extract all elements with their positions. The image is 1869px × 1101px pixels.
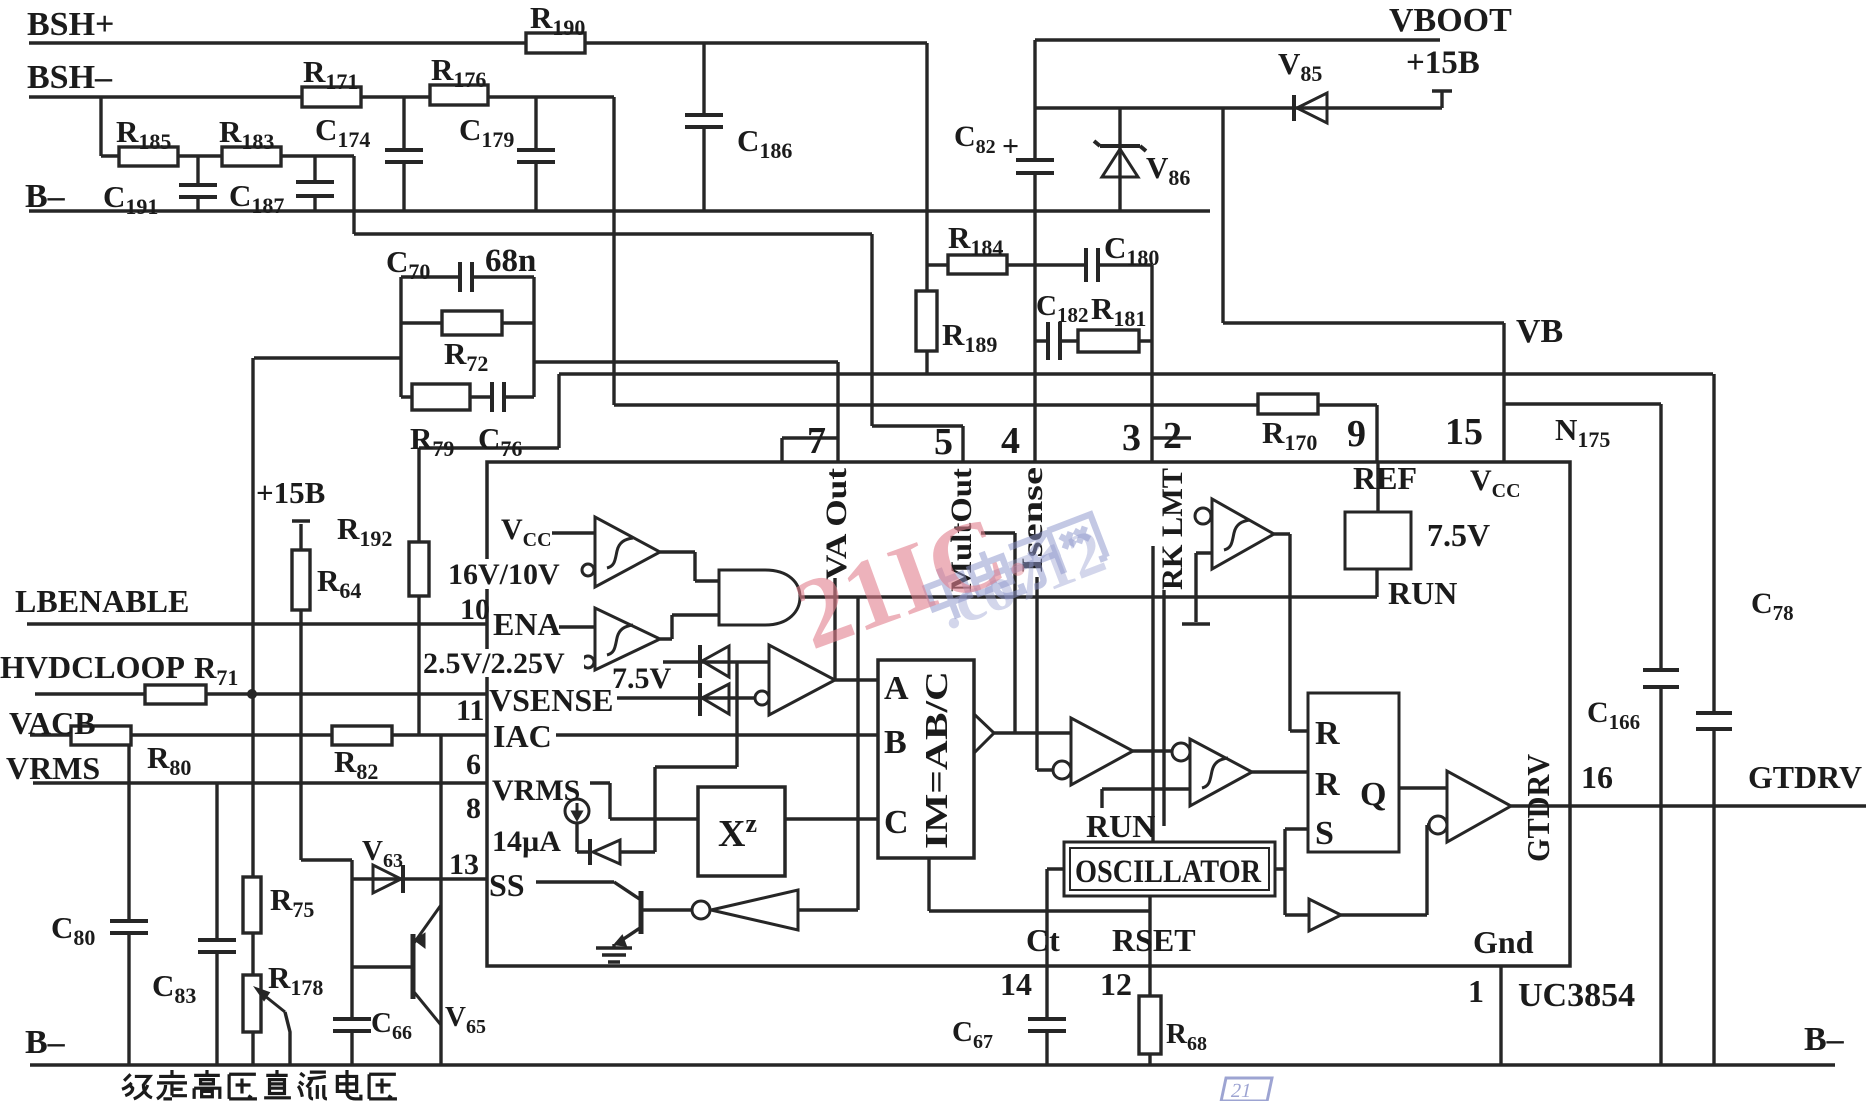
svg-text:R: R (1315, 766, 1340, 803)
svg-text:RUN: RUN (1086, 808, 1155, 844)
svg-text:VSENSE: VSENSE (489, 682, 614, 718)
svg-text:S: S (1315, 815, 1334, 852)
svg-text:16V/10V: 16V/10V (448, 558, 560, 591)
svg-text:1: 1 (1468, 973, 1484, 1009)
svg-text:VRMS: VRMS (492, 774, 580, 807)
svg-text:B–: B– (25, 178, 66, 215)
svg-text:7.5V: 7.5V (612, 662, 672, 695)
svg-text:7.5V: 7.5V (1427, 517, 1490, 553)
svg-text:5: 5 (934, 421, 953, 463)
svg-text:10: 10 (460, 593, 490, 626)
svg-text:+15B: +15B (256, 475, 325, 510)
svg-text:16: 16 (1581, 759, 1613, 795)
svg-text:9: 9 (1347, 413, 1366, 455)
svg-text:LBENABLE: LBENABLE (15, 583, 189, 619)
svg-text:B: B (884, 724, 907, 761)
svg-text:BSH–: BSH– (27, 59, 113, 96)
svg-text:B–: B– (25, 1024, 66, 1061)
svg-text:VB: VB (1516, 313, 1563, 350)
svg-text:VACB: VACB (9, 705, 96, 741)
svg-text:8: 8 (466, 792, 481, 825)
svg-text:11: 11 (456, 694, 484, 727)
svg-text:+15B: +15B (1406, 45, 1480, 81)
svg-text:6: 6 (466, 748, 481, 781)
svg-text:GTDRV: GTDRV (1748, 759, 1862, 795)
svg-text:RSET: RSET (1112, 922, 1196, 958)
svg-text:+: + (1002, 130, 1019, 163)
svg-text:2: 2 (1163, 415, 1182, 457)
svg-text:Ct: Ct (1026, 922, 1060, 958)
svg-text:VBOOT: VBOOT (1389, 2, 1512, 39)
svg-text:IAC: IAC (493, 718, 552, 754)
svg-text:2.5V/2.25V: 2.5V/2.25V (423, 647, 565, 680)
svg-text:Q: Q (1360, 776, 1386, 813)
svg-text:12: 12 (1100, 966, 1132, 1002)
svg-text:A: A (884, 670, 909, 707)
svg-text:UC3854: UC3854 (1518, 977, 1635, 1014)
svg-text:13: 13 (449, 848, 479, 881)
svg-text:C: C (884, 804, 909, 841)
svg-text:HVDCLOOP: HVDCLOOP (0, 649, 185, 685)
svg-text:68n: 68n (485, 243, 536, 279)
svg-text:REF: REF (1353, 460, 1417, 496)
svg-text:14µA: 14µA (492, 825, 561, 858)
svg-text:R: R (1315, 715, 1340, 752)
svg-text:B–: B– (1804, 1021, 1845, 1058)
svg-text:15: 15 (1445, 411, 1483, 453)
svg-text:14: 14 (1000, 966, 1032, 1002)
svg-text:GTDRV: GTDRV (1520, 754, 1556, 862)
svg-text:IM=AB/C: IM=AB/C (918, 671, 954, 849)
svg-text:4: 4 (1001, 420, 1020, 462)
svg-text:3: 3 (1122, 417, 1141, 459)
svg-text:SS: SS (489, 867, 525, 903)
svg-text:OSCILLATOR: OSCILLATOR (1075, 854, 1262, 890)
svg-text:Gnd: Gnd (1473, 924, 1534, 960)
svg-text:7: 7 (807, 420, 826, 462)
svg-text:RUN: RUN (1388, 575, 1457, 611)
svg-text:BSH+: BSH+ (27, 6, 114, 43)
svg-text:ENA: ENA (493, 606, 561, 642)
svg-text:VRMS: VRMS (6, 750, 100, 786)
svg-text:RK LMT: RK LMT (1156, 468, 1189, 590)
